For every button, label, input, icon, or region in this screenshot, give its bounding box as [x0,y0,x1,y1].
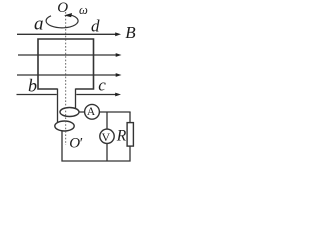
svg-text:d: d [91,16,100,35]
svg-text:a: a [34,14,44,35]
svg-text:c: c [98,75,106,94]
svg-text:B: B [125,23,136,42]
svg-text:ω: ω [79,3,88,17]
svg-text:V: V [102,130,111,144]
svg-text:O: O [57,0,68,16]
svg-text:A: A [87,106,96,118]
svg-text:O′: O′ [69,136,83,152]
svg-text:b: b [28,75,37,95]
svg-text:R: R [116,128,127,145]
